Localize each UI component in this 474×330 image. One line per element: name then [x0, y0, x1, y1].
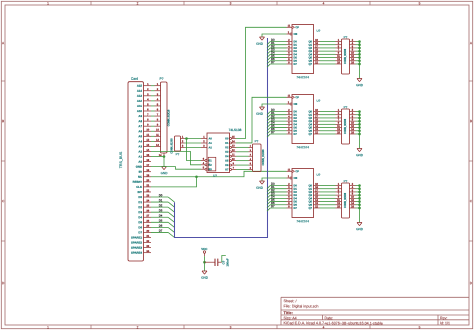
svg-text:D3: D3 [138, 210, 142, 214]
svg-text:GND: GND [136, 165, 142, 169]
svg-text:2: 2 [137, 325, 139, 329]
svg-text:A12: A12 [137, 99, 143, 103]
svg-text:CONN_02X08: CONN_02X08 [344, 192, 347, 208]
svg-text:A11: A11 [137, 104, 142, 108]
svg-text:1: 1 [47, 325, 49, 329]
svg-text:74HC574: 74HC574 [296, 145, 309, 149]
svg-text:O7: O7 [225, 167, 229, 171]
svg-text:CP: CP [295, 95, 299, 99]
svg-text:O6: O6 [225, 163, 229, 167]
svg-text:SPARE1: SPARE1 [131, 235, 142, 239]
svg-text:D4: D4 [138, 215, 142, 219]
svg-text:CONN_01X03: CONN_01X03 [171, 138, 174, 154]
svg-text:A1: A1 [208, 141, 212, 145]
svg-text:Sheet: /: Sheet: / [283, 299, 297, 303]
svg-text:Size: A4: Size: A4 [283, 316, 296, 320]
svg-text:CONN_01X16: CONN_01X16 [167, 109, 171, 126]
svg-text:A0: A0 [138, 160, 142, 164]
svg-text:A7: A7 [138, 124, 142, 128]
svg-text:B: B [470, 119, 472, 123]
svg-text:4: 4 [323, 325, 325, 329]
svg-text:74LS138: 74LS138 [229, 128, 242, 132]
svg-text:E1: E1 [208, 158, 212, 162]
svg-text:5: 5 [419, 1, 421, 5]
svg-text:A2: A2 [138, 149, 142, 153]
svg-text:D7: D7 [293, 62, 297, 66]
svg-text:Id: 1/1: Id: 1/1 [440, 321, 450, 325]
svg-text:CONN_02X08: CONN_02X08 [344, 118, 347, 134]
svg-text:B: B [2, 119, 4, 123]
svg-text:D0: D0 [159, 193, 163, 197]
svg-text:A13: A13 [137, 94, 143, 98]
svg-text:CONN_02X08: CONN_02X08 [344, 48, 347, 64]
svg-text:CP: CP [295, 169, 299, 173]
svg-text:D2: D2 [159, 203, 163, 207]
svg-text:A3: A3 [138, 144, 142, 148]
svg-text:A8: A8 [138, 119, 142, 123]
svg-text:Card: Card [131, 77, 138, 81]
svg-text:Q7: Q7 [309, 62, 313, 66]
svg-text:D5: D5 [138, 220, 142, 224]
svg-text:A2: A2 [208, 145, 212, 149]
svg-text:D7: D7 [138, 230, 142, 234]
svg-text:GND: GND [256, 186, 264, 190]
svg-text:D1: D1 [138, 200, 142, 204]
svg-text:U?: U? [316, 29, 320, 33]
svg-text:File: Digital input.sch: File: Digital input.sch [283, 304, 318, 308]
svg-text:Q7: Q7 [309, 206, 313, 210]
svg-text:TRS_BUS: TRS_BUS [119, 151, 123, 168]
svg-text:P?: P? [176, 152, 180, 156]
svg-text:VCC: VCC [201, 247, 208, 251]
svg-text:NC: NC [138, 175, 142, 179]
svg-text:KiCad E.D.A. kicad 4.0.7+e1-6: KiCad E.D.A. kicad 4.0.7+e1-6376~38~ubun… [283, 321, 382, 325]
svg-text:CP: CP [295, 25, 299, 29]
svg-text:A4: A4 [138, 139, 142, 143]
svg-text:GND: GND [356, 227, 364, 231]
svg-text:Date:: Date: [324, 316, 333, 320]
svg-text:100nF: 100nF [226, 258, 230, 266]
svg-text:CONN_01X06: CONN_01X06 [262, 149, 265, 166]
svg-text:D1: D1 [159, 198, 163, 202]
svg-text:SPARE4: SPARE4 [131, 251, 142, 255]
svg-text:O5: O5 [225, 159, 229, 163]
svg-text:D7: D7 [159, 229, 163, 233]
svg-text:5: 5 [419, 325, 421, 329]
svg-text:SPARE2: SPARE2 [131, 241, 142, 245]
svg-text:OE: OE [293, 102, 297, 106]
svg-text:U?: U? [316, 99, 320, 103]
svg-text:2: 2 [137, 1, 139, 5]
svg-text:O3: O3 [225, 150, 229, 154]
svg-text:E3: E3 [208, 167, 212, 171]
svg-text:U?: U? [213, 174, 217, 178]
svg-text:GND: GND [356, 83, 364, 87]
svg-text:D3: D3 [159, 208, 163, 212]
svg-text:P?: P? [255, 139, 259, 143]
svg-text:Q7: Q7 [309, 132, 313, 136]
svg-text:GND: GND [161, 171, 169, 175]
svg-text:GND: GND [201, 276, 209, 280]
svg-text:GND: GND [256, 112, 264, 116]
svg-text:O4: O4 [225, 154, 229, 158]
svg-text:D7: D7 [293, 132, 297, 136]
svg-text:D6: D6 [159, 224, 163, 228]
svg-text:D2: D2 [138, 205, 142, 209]
svg-text:A14: A14 [137, 89, 143, 93]
svg-text:A0: A0 [208, 136, 212, 140]
svg-text:A5: A5 [138, 134, 142, 138]
svg-text:GND: GND [256, 42, 264, 46]
svg-text:3: 3 [230, 325, 232, 329]
svg-text:5V: 5V [139, 170, 143, 174]
svg-text:O0: O0 [225, 136, 229, 140]
svg-text:E2: E2 [208, 163, 212, 167]
svg-text:A9: A9 [138, 114, 142, 118]
svg-text:4: 4 [323, 1, 325, 5]
svg-text:D4: D4 [159, 213, 163, 217]
svg-text:A6: A6 [138, 129, 142, 133]
svg-text:A10: A10 [137, 109, 143, 113]
svg-text:U?: U? [316, 173, 320, 177]
svg-text:D0: D0 [138, 195, 142, 199]
svg-text:RESET: RESET [133, 180, 143, 184]
svg-text:A15: A15 [137, 84, 143, 88]
svg-text:P?: P? [159, 77, 163, 81]
svg-text:SPARE3: SPARE3 [131, 246, 142, 250]
svg-text:GND: GND [356, 153, 364, 157]
svg-text:D5: D5 [159, 219, 163, 223]
svg-text:P?: P? [344, 179, 348, 183]
svg-text:OE: OE [293, 176, 297, 180]
svg-text:Title:: Title: [283, 310, 293, 315]
svg-text:1: 1 [47, 1, 49, 5]
svg-text:D6: D6 [138, 225, 142, 229]
svg-text:Rev:: Rev: [440, 316, 447, 320]
svg-text:OE: OE [293, 32, 297, 36]
svg-text:O1: O1 [225, 141, 229, 145]
svg-text:CLK: CLK [136, 185, 142, 189]
svg-text:A1: A1 [138, 155, 142, 159]
svg-text:INT: INT [137, 190, 142, 194]
svg-text:3: 3 [230, 1, 232, 5]
svg-text:P?: P? [344, 105, 348, 109]
svg-text:74HC574: 74HC574 [296, 219, 309, 223]
svg-text:74HC574: 74HC574 [296, 75, 309, 79]
svg-text:P?: P? [344, 35, 348, 39]
svg-text:D7: D7 [293, 206, 297, 210]
svg-text:O2: O2 [225, 145, 229, 149]
